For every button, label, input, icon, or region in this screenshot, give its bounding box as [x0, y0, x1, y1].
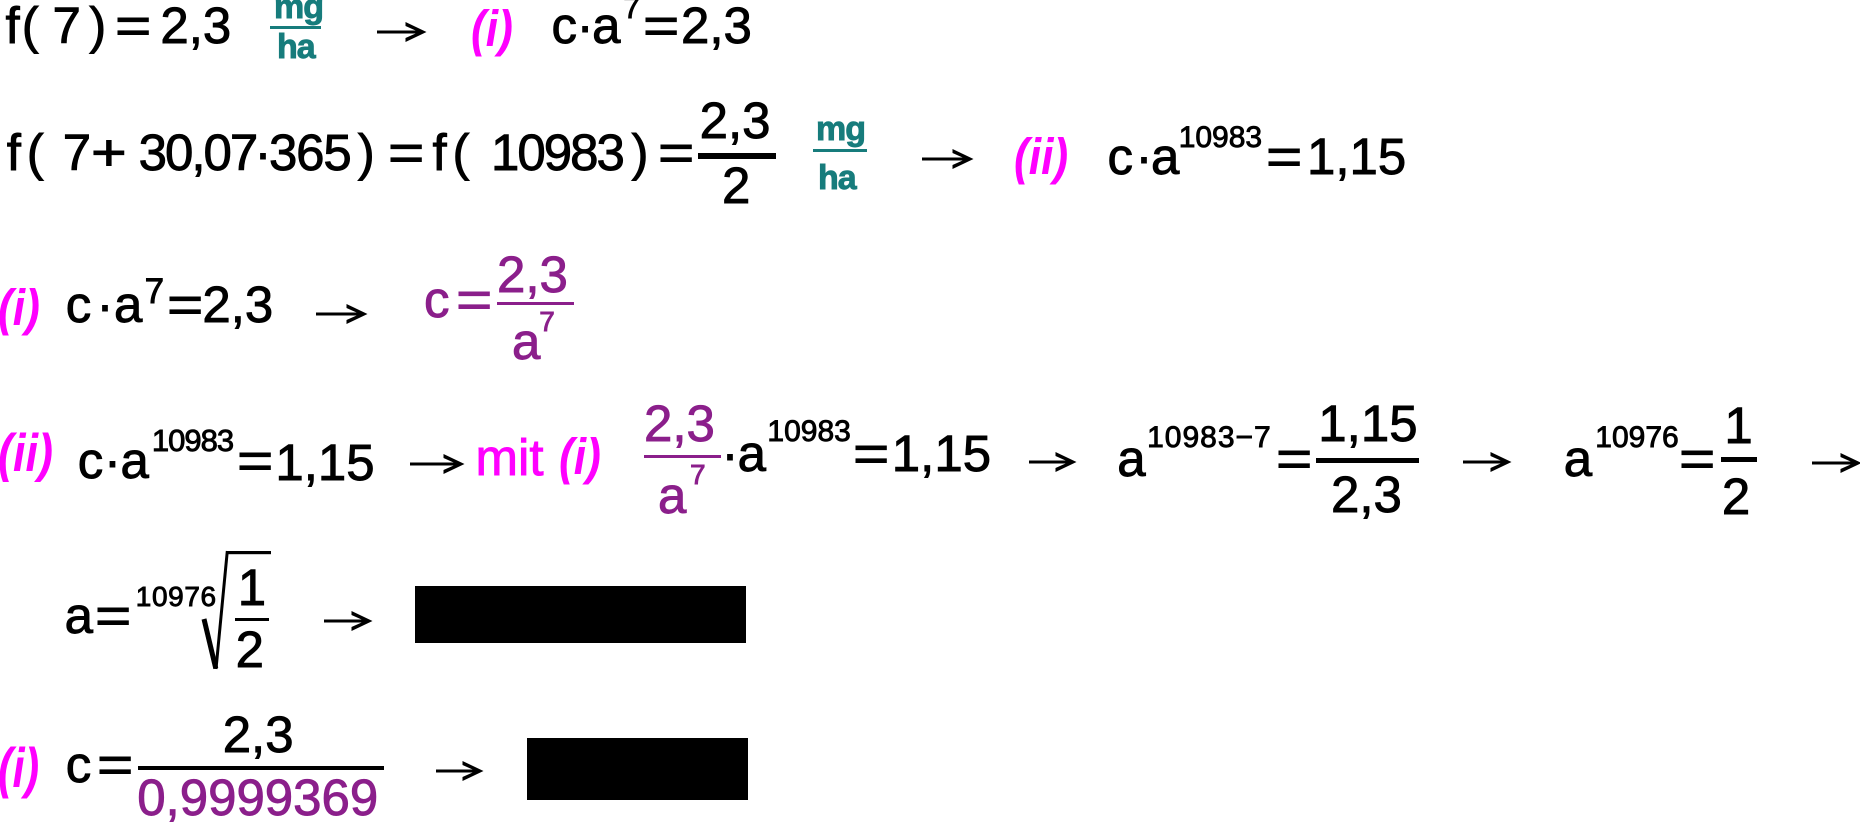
r2 frac num 2,3 [700, 95, 771, 146]
r3 cdot [97, 279, 114, 330]
r6 frac den [137, 772, 378, 823]
r1 unit bar [270, 26, 321, 29]
r5 frac bar [235, 618, 269, 621]
r3 a [114, 279, 142, 330]
r4 cdot2 [722, 428, 739, 479]
r4 frac3 den 2 [1722, 471, 1750, 522]
r2 7 [63, 127, 91, 178]
r1 rparen [89, 0, 106, 51]
r4 frac2 num 1,15 [1318, 398, 1417, 449]
r2 1,15 [1307, 131, 1406, 182]
r5 arrow [324, 608, 373, 634]
r4 sup10983-7 [1147, 423, 1272, 453]
r2 unit mg [816, 112, 865, 146]
r4 sup10983 [152, 425, 233, 456]
r1 2,3 [160, 0, 231, 51]
r3 sup7 [145, 274, 164, 309]
r2 c [1108, 131, 1134, 182]
r3 frac den sup7 [539, 308, 555, 336]
r5 index 10976 [136, 583, 217, 611]
r4 1,15 [275, 437, 374, 488]
r4 frac num 2,3 [644, 398, 715, 449]
r5 equals [95, 590, 131, 641]
r2 frac bar [698, 153, 776, 159]
r4 arrow [410, 451, 465, 477]
r4 arrow3 [1463, 449, 1512, 475]
r3 equals [167, 279, 203, 330]
r3 frac bar [497, 302, 574, 305]
r1 unit mg [274, 0, 323, 24]
r2 cdot2 [1136, 131, 1153, 182]
r4 equals2 [853, 428, 889, 479]
r4 frac den sup7 [690, 461, 706, 489]
r1 cdot [577, 0, 594, 51]
r1 sup7 [623, 0, 640, 24]
r4 frac bar [644, 455, 721, 458]
r2 365 [269, 127, 351, 178]
r2 lparen [27, 127, 44, 178]
r1 arrow [377, 19, 427, 45]
r6 c [66, 739, 92, 790]
r2 arrow [922, 146, 974, 172]
r6 frac num 2,3 [223, 709, 294, 760]
r4 equals [237, 435, 273, 486]
r5 a [65, 590, 93, 641]
r2 unit bar [813, 149, 867, 152]
r2 lparen2 [453, 127, 470, 178]
r4 frac2 den 2,3 [1331, 469, 1402, 520]
r4 (ii) [0, 427, 53, 480]
r6 equals [97, 739, 133, 790]
r4 frac3 bar [1721, 457, 1757, 462]
r1 (i) [471, 3, 513, 54]
r4 equals3 [1276, 433, 1312, 484]
r1 2,3b [681, 0, 752, 51]
r3 purple equals [456, 274, 492, 325]
r1 7 [53, 0, 81, 51]
r4 frac3 num 1 [1724, 400, 1752, 451]
r1 lparen [22, 0, 39, 51]
r4 c [78, 435, 104, 486]
r6 (i) [0, 740, 39, 796]
r2 unit ha [818, 161, 856, 195]
r5 radical [195, 545, 280, 680]
r2 equals [388, 127, 424, 178]
r3 frac den a [512, 316, 540, 367]
r4 arrow2 [1029, 449, 1077, 475]
r5 frac den 2 [236, 624, 264, 675]
r3 2,3 [202, 279, 273, 330]
r3 arrow [316, 301, 368, 327]
r2 cdot [255, 127, 272, 178]
r1 equals [115, 0, 151, 51]
r1 c [552, 0, 578, 51]
r2 f [7, 127, 21, 178]
r6 arrow [436, 758, 484, 784]
r2 sup10983 [1179, 123, 1262, 153]
r4 frac2 bar [1316, 458, 1420, 463]
r2 10983 [491, 127, 623, 178]
r3 purple c [424, 274, 450, 325]
r5 frac num 1 [238, 562, 266, 613]
r4 a3 [1117, 433, 1145, 484]
r2 frac den 2 [722, 160, 750, 211]
r1 equals2 [643, 0, 679, 51]
r4 a2 [738, 428, 766, 479]
r5 redaction box [415, 586, 746, 643]
r2 (ii) [1014, 131, 1068, 182]
r2 30,07 [139, 127, 257, 178]
r3 (i) [0, 282, 40, 333]
r2 rparen [358, 127, 375, 178]
r4 a4 [1564, 433, 1592, 484]
r6 redaction box [527, 738, 748, 800]
r4 mit [476, 432, 544, 483]
r2 a [1151, 131, 1179, 182]
r2 equals2 [658, 127, 694, 178]
r4 sup10976 [1595, 423, 1678, 453]
r4 a [121, 435, 149, 486]
r2 equals3 [1266, 131, 1302, 182]
r3 frac num 2,3 [497, 249, 568, 300]
r2 plus [91, 127, 127, 178]
r4 equals4 [1679, 433, 1715, 484]
r4 (i) [559, 431, 601, 482]
r4 cdot [104, 435, 121, 486]
r1 f [6, 0, 20, 51]
r4 arrow4 [1812, 450, 1860, 476]
r1 unit ha [277, 30, 315, 64]
r4 1,15b [892, 428, 991, 479]
r4 frac den a [658, 470, 686, 521]
r3 c [66, 279, 92, 330]
r6 frac bar [138, 766, 384, 771]
r1 a [592, 0, 620, 51]
r2 f2 [433, 127, 447, 178]
r2 rparen2 [632, 127, 649, 178]
r4 sup10983b [767, 417, 850, 447]
